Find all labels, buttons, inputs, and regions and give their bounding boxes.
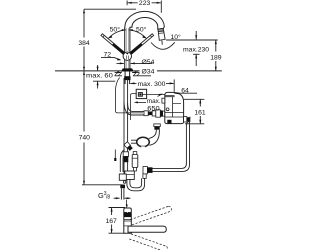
top view lever dashed up xyxy=(130,206,171,225)
faucet column xyxy=(125,27,130,69)
spray head coupling band xyxy=(158,29,164,32)
spray head coupling line xyxy=(159,32,164,35)
column lower inner lines xyxy=(126,61,128,69)
spray outlet reference line xyxy=(166,39,218,41)
fitting circle xyxy=(123,181,126,184)
mounting nut xyxy=(124,76,130,80)
dimension max.60 xyxy=(93,65,115,89)
filter oval xyxy=(137,137,150,147)
svg-text:189: 189 xyxy=(210,54,222,61)
supply nipple G3/8 xyxy=(121,188,124,199)
supply pipe left xyxy=(124,78,128,174)
check valve block xyxy=(125,171,135,180)
spray head body xyxy=(158,31,165,40)
svg-text:167: 167 xyxy=(106,218,118,225)
control box xyxy=(136,89,165,98)
dimension 161 xyxy=(184,99,205,124)
svg-text:72: 72 xyxy=(104,51,112,58)
hose J-hook xyxy=(127,178,145,190)
supply nipple collar xyxy=(120,185,125,189)
dimension 740 text gap xyxy=(78,133,91,141)
svg-text:740: 740 xyxy=(79,135,91,142)
label G3/8 xyxy=(98,191,110,201)
horizontal pipe fittings xyxy=(143,167,153,174)
svg-text:/8: /8 xyxy=(106,195,110,201)
threaded shank below deck xyxy=(125,71,130,84)
svg-text:max.230: max.230 xyxy=(183,46,209,53)
svg-text:50°: 50° xyxy=(110,26,121,34)
svg-text:384: 384 xyxy=(78,40,90,47)
svg-text:64: 64 xyxy=(181,88,189,95)
filter inlet nipple xyxy=(131,140,137,143)
control box cable left xyxy=(130,94,136,120)
dimension 189 text gap xyxy=(210,52,223,60)
dimension 223 text gap xyxy=(138,0,152,6)
dimension 64 xyxy=(174,79,197,94)
top view lever dashed down xyxy=(129,234,167,250)
filter inlet connector (tilted) xyxy=(124,142,133,151)
dimension max.230 xyxy=(193,31,200,66)
dimension 167 xyxy=(109,208,125,234)
regulator body xyxy=(132,152,138,171)
pipe connector collar xyxy=(123,152,128,157)
dimension 189 xyxy=(215,40,217,71)
angle arc right 50 xyxy=(129,29,147,38)
svg-text:223: 223 xyxy=(139,0,151,7)
sensor cable plug xyxy=(114,150,116,159)
angle arc left 50 xyxy=(108,29,126,38)
lever handle right (50 deg position) xyxy=(130,34,154,54)
spray swivel arc 10 deg xyxy=(151,42,175,49)
countertop deck line top xyxy=(55,70,222,72)
svg-text:max. 300: max. 300 xyxy=(138,81,166,88)
top view extension line xyxy=(109,207,126,209)
svg-text:max. 60: max. 60 xyxy=(86,73,113,80)
label max. 60 gap xyxy=(86,72,115,79)
hook connector xyxy=(143,173,146,179)
spray hose to unit xyxy=(124,101,144,115)
dimension 223 line xyxy=(127,1,161,13)
link line supply nipple to top view xyxy=(126,200,128,209)
base flange xyxy=(122,69,133,71)
sensor cable xyxy=(115,78,143,113)
dimension 384/740 vertical line xyxy=(83,9,85,185)
top view lever solid xyxy=(128,226,166,232)
hose filter to unit bottom connector xyxy=(149,130,160,146)
lever handle left (50 deg position) xyxy=(101,34,125,54)
leader 72 xyxy=(101,57,121,60)
connector below unit xyxy=(154,124,161,130)
svg-text:max.: max. xyxy=(147,98,161,105)
spout gooseneck tube xyxy=(125,11,164,29)
svg-text:Ø54: Ø54 xyxy=(142,59,155,66)
hose loop horizontal run xyxy=(152,165,154,168)
top view faucet base xyxy=(124,208,132,233)
dimension arrows O54 xyxy=(117,62,153,64)
dimension 167 text gap xyxy=(105,216,119,224)
dimension 384 text gap xyxy=(78,39,90,46)
countertop deck line bottom xyxy=(114,75,151,77)
svg-text:650: 650 xyxy=(147,105,160,112)
label max.650 xyxy=(134,94,163,113)
label O34 gap xyxy=(140,68,158,74)
spray stream line xyxy=(161,41,163,45)
supply tee block xyxy=(119,174,126,180)
under-sink unit xyxy=(162,92,184,123)
hose filter to supply block xyxy=(120,150,126,172)
svg-text:161: 161 xyxy=(194,110,206,117)
svg-text:50°: 50° xyxy=(136,26,147,34)
dimension 161 text gap xyxy=(193,107,207,115)
dimension arrows O34 xyxy=(113,71,141,73)
hose from unit right side xyxy=(153,117,191,172)
extension line spout top (384 ref) xyxy=(84,8,136,10)
svg-text:Ø34: Ø34 xyxy=(142,69,155,76)
hose connector chain into unit xyxy=(144,110,165,117)
ball joint xyxy=(123,52,131,60)
extension line hose end (740 ref) xyxy=(82,184,123,186)
dimension max.300 xyxy=(130,79,174,91)
deck hatching xyxy=(115,71,142,76)
dimension G3/8 arrows xyxy=(114,197,131,199)
